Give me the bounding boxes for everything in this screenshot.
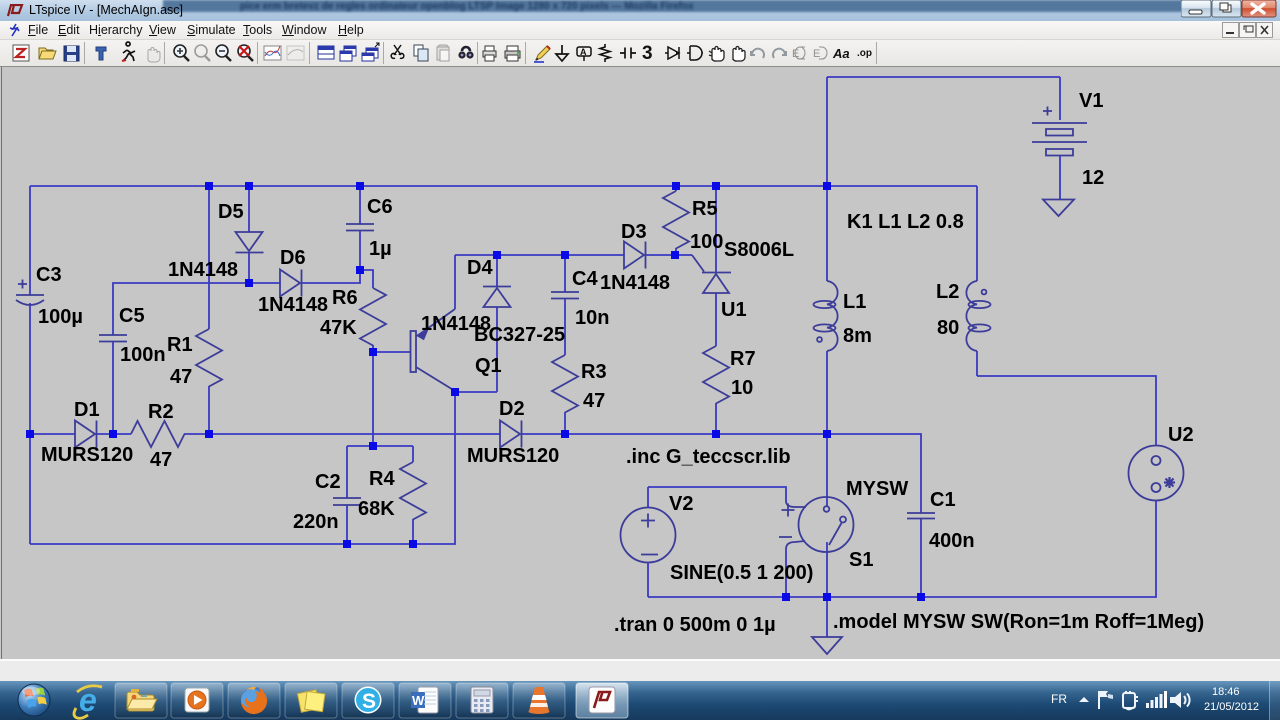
ground below S1 [812, 637, 842, 654]
wire V1 stubs [1059, 77, 1061, 199]
lamp U2 [1129, 446, 1184, 501]
svg-text:.op: .op [857, 48, 872, 59]
svg-text:MURS120: MURS120 [41, 444, 133, 466]
svg-text:E: E [813, 48, 820, 60]
svg-text:.inc G_teccscr.lib: .inc G_teccscr.lib [626, 446, 791, 468]
svg-text:47: 47 [170, 366, 192, 388]
wire R1 column [208, 186, 210, 434]
wire C5 bottom [112, 341, 114, 434]
svg-text:MURS120: MURS120 [467, 445, 559, 467]
inductor L1 [814, 281, 838, 351]
svg-text:D6: D6 [280, 247, 306, 269]
svg-text:R7: R7 [730, 348, 756, 370]
resistor R3 [552, 355, 578, 413]
capacitor C2 [333, 498, 361, 505]
wire L2 column [976, 186, 978, 281]
resistor R6 [360, 288, 386, 346]
svg-text:10: 10 [731, 377, 753, 399]
wire U1 column [715, 186, 717, 434]
svg-text:1N4148: 1N4148 [600, 272, 670, 294]
svg-text:3: 3 [642, 43, 653, 64]
wire top rail node N001 [30, 185, 977, 187]
svg-text:8m: 8m [843, 325, 872, 347]
switch S1 [779, 497, 854, 552]
svg-text:S: S [362, 690, 376, 713]
svg-text:C4: C4 [572, 268, 598, 290]
wire D5 column [248, 186, 250, 283]
wire U1 gate stub [676, 254, 692, 256]
svg-text:.model MYSW SW(Ron=1m Roff=1Me: .model MYSW SW(Ron=1m Roff=1Meg) [833, 611, 1204, 633]
svg-text:A: A [580, 47, 587, 57]
wire mid rail node N005 [30, 434, 921, 597]
svg-text:1N4148: 1N4148 [168, 259, 238, 281]
svg-text:R6: R6 [332, 287, 358, 309]
svg-text:C2: C2 [315, 471, 341, 493]
resistor R1 [196, 329, 222, 387]
svg-text:U1: U1 [721, 299, 747, 321]
capacitor C3 polarized [16, 280, 44, 306]
svg-text:L1: L1 [843, 291, 866, 313]
wire D4 column [455, 255, 497, 392]
svg-text:D5: D5 [218, 201, 244, 223]
wire C6 column [359, 186, 361, 270]
resistor R7 [703, 346, 729, 404]
wire C3 column [29, 186, 31, 544]
capacitor C6 [346, 224, 374, 231]
svg-text:1N4148: 1N4148 [258, 294, 328, 316]
svg-text:80: 80 [937, 317, 959, 339]
capacitor C5 [99, 335, 127, 342]
wire bottom left rail [30, 392, 455, 544]
svg-text:C3: C3 [36, 264, 62, 286]
svg-text:D2: D2 [499, 398, 525, 420]
diode D4 [483, 287, 511, 308]
svg-text:68K: 68K [358, 498, 395, 520]
svg-text:100µ: 100µ [38, 306, 83, 328]
wire U2 top [977, 351, 1156, 446]
resistor R4 [400, 462, 426, 520]
diode D1 [75, 421, 97, 448]
svg-text:Aa: Aa [832, 46, 850, 61]
svg-text:BC327-25: BC327-25 [474, 324, 565, 346]
diode D5 [236, 232, 264, 253]
svg-text:C6: C6 [367, 196, 393, 218]
svg-text:47K: 47K [320, 317, 357, 339]
capacitor C4 [551, 292, 579, 299]
resistor R5 [663, 191, 689, 249]
svg-text:V2: V2 [669, 493, 693, 515]
battery V1 [1032, 107, 1087, 156]
ground below V1 [1043, 200, 1074, 217]
resistor R2 [131, 421, 185, 447]
svg-text:.tran 0 500m 0 1µ: .tran 0 500m 0 1µ [614, 614, 776, 636]
diode D6 [280, 270, 302, 297]
svg-text:L2: L2 [936, 281, 959, 303]
wire V1 top [827, 77, 1060, 186]
wire V2 plus loop [648, 487, 786, 508]
svg-text:R1: R1 [167, 334, 193, 356]
svg-text:R4: R4 [369, 468, 395, 490]
svg-text:100n: 100n [120, 344, 166, 366]
wire bottom right rail node N009 [648, 500, 1156, 597]
svg-text:D3: D3 [621, 221, 647, 243]
capacitor C1 [907, 513, 935, 519]
wire S1 minus drop [785, 549, 787, 597]
wire C5 top node [113, 270, 360, 335]
svg-text:K1 L1 L2 0.8: K1 L1 L2 0.8 [847, 211, 964, 233]
diode D2 [500, 421, 522, 448]
wire R5 column [675, 186, 677, 255]
svg-text:12: 12 [1082, 167, 1104, 189]
svg-text:100: 100 [690, 231, 723, 253]
wire R6 hookup [360, 270, 373, 352]
svg-text:V1: V1 [1079, 90, 1103, 112]
diode D3 [624, 242, 646, 269]
voltage source V2 [621, 508, 676, 563]
wire emitter node [455, 255, 676, 309]
svg-text:C5: C5 [119, 305, 145, 327]
SCR U1 [692, 255, 731, 293]
svg-text:R3: R3 [581, 361, 607, 383]
svg-text:W: W [412, 693, 425, 708]
wire C2 R4 loop [347, 446, 413, 544]
svg-text:47: 47 [583, 390, 605, 412]
svg-text:D4: D4 [467, 257, 493, 279]
svg-text:U2: U2 [1168, 424, 1194, 446]
svg-text:R2: R2 [148, 401, 174, 423]
wire V2 bottom [647, 562, 649, 597]
svg-text:47: 47 [150, 449, 172, 471]
wire Q1 base column [373, 352, 410, 446]
inductor L2 [966, 281, 990, 351]
svg-text:C1: C1 [930, 489, 956, 511]
wire C4 R3 column [564, 255, 566, 434]
svg-text:S1: S1 [849, 549, 873, 571]
svg-text:R5: R5 [692, 198, 718, 220]
svg-text:MYSW: MYSW [846, 478, 908, 500]
svg-text:10n: 10n [575, 307, 609, 329]
svg-text:220n: 220n [293, 511, 339, 533]
svg-text:S8006L: S8006L [724, 239, 794, 261]
svg-text:SINE(0.5 1 200): SINE(0.5 1 200) [670, 562, 813, 584]
svg-text:Q1: Q1 [475, 355, 502, 377]
svg-text:D1: D1 [74, 399, 100, 421]
svg-text:400n: 400n [929, 530, 975, 552]
transistor Q1 [411, 309, 456, 391]
svg-text:1µ: 1µ [369, 238, 392, 260]
wire L1 S1 column [826, 186, 828, 637]
